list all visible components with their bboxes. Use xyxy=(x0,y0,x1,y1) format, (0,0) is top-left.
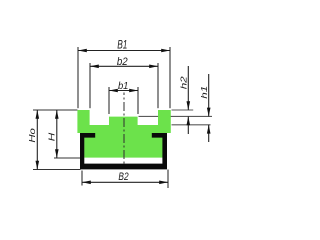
dimension h1 lower xyxy=(208,125,210,142)
wire: extension line B2 right xyxy=(167,170,169,189)
wire: extension line b1 left xyxy=(108,87,110,114)
svg-text:h1: h1 xyxy=(199,85,209,98)
svg-text:Ho: Ho xyxy=(27,128,37,143)
svg-text:B1: B1 xyxy=(117,39,127,51)
svg-text:b2: b2 xyxy=(117,56,128,68)
dimension h1 upper xyxy=(208,74,210,116)
dimension H xyxy=(56,110,58,158)
wire: extension line H bottom, y=158 xyxy=(54,157,80,159)
svg-text:B2: B2 xyxy=(118,171,128,183)
svg-text:H: H xyxy=(47,132,57,142)
wire: extension line boss-top (under profile), y=116.3 xyxy=(139,115,213,117)
wire: dimension line b1 xyxy=(109,90,138,92)
dimension h2 upper xyxy=(187,66,189,110)
wire: extension line Ho bottom, y=169.5 xyxy=(33,169,81,171)
svg-text:b1: b1 xyxy=(118,80,129,92)
node green profile body xyxy=(77,110,170,158)
dimension h2 lower xyxy=(187,116,189,134)
wire: extension line b2 right xyxy=(157,63,159,108)
wire: extension line b1 right xyxy=(137,87,139,114)
wire: dimension line B1 xyxy=(78,50,170,52)
node steel C-channel xyxy=(80,133,167,169)
wire: extension line b2 left xyxy=(89,63,91,108)
wire: centerline xyxy=(123,93,125,165)
wire: extension line top left, y=110 xyxy=(33,109,77,111)
wire: extension line B1 right xyxy=(169,47,171,108)
wire: dimension line b2 xyxy=(90,65,158,67)
wire: dimension line B2 xyxy=(82,181,168,183)
wire: extension line B1 left xyxy=(77,47,79,108)
dimension Ho xyxy=(36,110,38,170)
wire: extension line groove-bottom right, y=124.8 xyxy=(172,124,211,126)
svg-text:h2: h2 xyxy=(179,76,189,89)
wire: extension line tooth-top right, y=110 xyxy=(172,109,194,111)
wire: extension line B2 left xyxy=(81,171,83,186)
